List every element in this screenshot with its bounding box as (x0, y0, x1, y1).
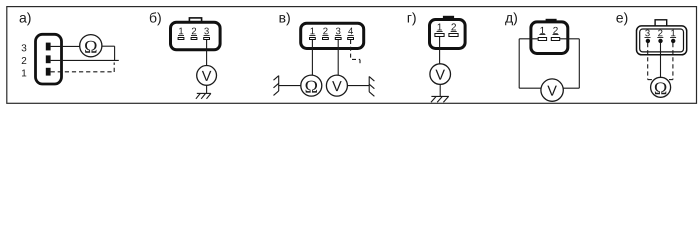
voltmeter P5 (430, 64, 451, 85)
wire ohmmeter right (102, 45, 115, 47)
dashed wire pin3 down (647, 43, 649, 80)
pin number 1 (438, 24, 442, 31)
pin 1 contact dot (671, 39, 675, 43)
connector X6 key tab (655, 20, 667, 26)
pin 1 contact (538, 38, 546, 41)
dashed wire pin4 right (352, 58, 360, 60)
wire pin1 to voltmeter (519, 87, 541, 89)
pin number 2 (553, 27, 558, 34)
pin 4 contact (348, 38, 354, 40)
dashed wire pin1 up tick (113, 63, 115, 73)
ohmmeter P7 (651, 77, 671, 97)
voltmeter P4 (326, 75, 347, 96)
pin number 1 (671, 30, 675, 37)
voltmeter P2 (197, 66, 217, 86)
pin label 2 (22, 57, 27, 64)
label е) (616, 12, 627, 25)
dashed wire pin3 to ohmmeter (648, 79, 652, 81)
wire pin3 to voltmeter (206, 40, 208, 66)
wire voltmeter to ground (439, 84, 441, 96)
connector X6 inner shell (640, 29, 684, 52)
label б) (150, 12, 161, 25)
pin number 3 (645, 30, 650, 37)
pin number 2 (323, 28, 327, 35)
pin 1 contact (310, 38, 316, 40)
label в) (280, 12, 290, 25)
pin number 1 (179, 28, 183, 35)
label д) (505, 12, 517, 25)
pin 2 contact (551, 38, 559, 41)
wire ground to ohmmeter (279, 85, 301, 87)
pin number 4 (348, 28, 353, 35)
pin 1 contact (46, 68, 51, 76)
wire pin3 to ohmmeter (51, 45, 80, 47)
dashed wire pin4 down (350, 40, 352, 58)
dashed wire pin1 to ohmmeter (669, 79, 673, 81)
voltmeter P6 (541, 79, 563, 101)
pin label 1 (22, 70, 26, 77)
pin 2 contact dot (658, 39, 662, 43)
wire pin2 (51, 59, 119, 61)
pin number 1 (540, 27, 544, 34)
wire pin2 to voltmeter (563, 87, 579, 89)
wire voltmeter to ground (206, 85, 208, 93)
pin 2 contact (449, 34, 458, 37)
ground symbol (431, 96, 449, 102)
pin number 2 (192, 28, 196, 35)
right chassis ground (369, 76, 374, 96)
wire pin1 down (518, 39, 520, 88)
connector X4 body (430, 20, 466, 49)
connector X6 outer shell (637, 26, 687, 55)
connector X4 key tab (filled) (443, 16, 454, 20)
pin 2 contact (323, 38, 329, 40)
label г) (408, 12, 416, 25)
pin number 3 (204, 28, 209, 35)
pin number 2 (658, 30, 662, 37)
label а) (20, 12, 31, 25)
connector X1 body (36, 34, 62, 84)
border frame (7, 7, 697, 104)
connector X2 body (171, 22, 221, 50)
dashed wire pin4 down tick (359, 60, 361, 63)
connector X3 body (301, 23, 364, 48)
solid wire pin2 to ohmmeter (660, 43, 662, 77)
left chassis ground (274, 76, 279, 96)
wire pin2 right (560, 38, 580, 40)
pin 2 contact (46, 55, 51, 63)
pin 3 contact (46, 43, 51, 51)
pin 3 contact dot (646, 39, 650, 43)
pin number 1 (310, 28, 314, 35)
dashed wire pin1 (51, 71, 115, 73)
connector X2 key tab (189, 18, 201, 23)
wire pin2 down (578, 39, 580, 88)
pin number 3 (336, 28, 341, 35)
ohmmeter P1 (80, 35, 102, 57)
ohmmeter P3 (301, 75, 322, 96)
pin 1 contact (435, 34, 444, 37)
connector X5 body (531, 22, 568, 54)
pin label 3 (22, 44, 27, 51)
pin 3 contact (204, 38, 210, 40)
wire pin1 to voltmeter (439, 37, 441, 64)
pin 3 contact (335, 38, 341, 40)
pin number 2 (451, 23, 456, 30)
wire pin1 to ohmmeter (311, 40, 313, 75)
pin 1 contact (178, 38, 184, 40)
pin 2 contact (191, 38, 197, 40)
wire down to pin2 line (114, 46, 116, 60)
dashed wire pin1 down (672, 43, 674, 80)
wire pin3 to voltmeter (337, 40, 339, 76)
wire pin1 left (519, 38, 538, 40)
ground symbol (196, 93, 211, 98)
connector X5 key tab (filled) (546, 19, 557, 23)
wire voltmeter to right ground (347, 85, 369, 87)
